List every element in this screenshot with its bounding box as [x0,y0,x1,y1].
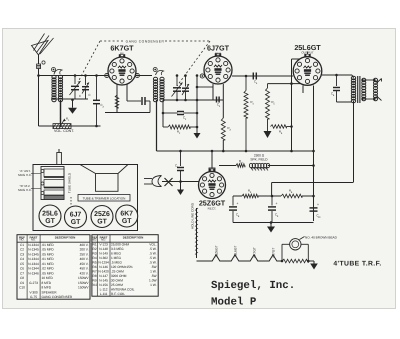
svg-text:R.F. COIL: R.F. COIL [111,292,125,296]
svg-text:V-123: V-123 [99,243,108,247]
svg-text:.5W: .5W [151,274,157,278]
svg-text:DESCRIPTION: DESCRIPTION [123,236,144,240]
svg-text:GT: GT [97,219,107,226]
svg-text:6J7: 6J7 [70,211,82,218]
svg-text:25Z6: 25Z6 [94,211,110,218]
svg-text:.02 MFD: .02 MFD [42,267,55,271]
svg-text:4ʹTUBE T.R.F.: 4ʹTUBE T.R.F. [333,261,381,268]
svg-text:N-1344: N-1344 [28,262,39,266]
svg-text:L-112: L-112 [100,288,108,292]
svg-text:200 V.: 200 V. [80,248,89,252]
svg-text:8 MFD: 8 MFD [42,286,52,290]
svg-text:N-1344: N-1344 [28,267,39,271]
svg-text:R4: R4 [93,256,97,260]
svg-text:NO.: NO. [31,238,36,242]
svg-text:420 V.: 420 V. [80,271,89,275]
svg-text:450 V.: 450 V. [80,262,89,266]
svg-text:150WV: 150WV [78,286,89,290]
svg-text:150WV: 150WV [78,276,89,280]
svg-text:N-146: N-146 [99,265,108,269]
svg-text:L-111: L-111 [100,292,108,296]
svg-text:VOL. CONT.: VOL. CONT. [54,129,74,133]
svg-text:N-148: N-148 [99,247,108,251]
svg-text:400 V.: 400 V. [80,243,89,247]
svg-text:R2: R2 [93,247,97,251]
svg-text:10 MFD: 10 MFD [42,276,54,280]
svg-text:450 V.: 450 V. [80,267,89,271]
svg-text:C1: C1 [20,243,24,247]
svg-text:.05 MFD: .05 MFD [42,271,55,275]
svg-text:N-1344: N-1344 [28,257,39,261]
svg-text:N-302: N-302 [99,256,108,260]
svg-text:C5: C5 [20,262,24,266]
svg-text:NO.: NO. [101,238,106,242]
svg-text:3.3 MEG: 3.3 MEG [111,247,124,251]
svg-text:6K7: 6K7 [120,210,133,217]
svg-text:250 V.: 250 V. [80,252,89,256]
svg-text:6 MEG: 6 MEG [111,252,121,256]
svg-text:1 MEG: 1 MEG [111,256,121,260]
svg-text:NO.: NO. [92,238,97,242]
svg-text:R7: R7 [93,270,97,274]
svg-text:1 W.: 1 W. [150,283,156,287]
svg-text:.05 MFD: .05 MFD [42,252,55,256]
svg-text:C4: C4 [20,257,24,261]
svg-text:6K7GT: 6K7GT [252,247,256,257]
svg-text:N-1420: N-1420 [98,270,109,274]
svg-text:GT: GT [122,218,132,225]
svg-text:V-300: V-300 [29,290,38,294]
svg-text:N-1344: N-1344 [28,243,39,247]
svg-text:+: + [237,202,239,206]
svg-text:N-149: N-149 [99,252,108,256]
svg-text:C9: C9 [20,281,24,285]
svg-text:8 MFD: 8 MFD [42,281,52,285]
svg-text:N-145: N-145 [99,279,108,283]
svg-text:30 OHM: 30 OHM [111,279,123,283]
svg-text:Model P: Model P [211,297,257,309]
svg-text:SPEAKER: SPEAKER [42,290,58,294]
svg-text:Spiegel, Inc.: Spiegel, Inc. [211,280,295,292]
svg-text:+: + [276,202,278,206]
svg-text:150WV: 150WV [78,281,89,285]
svg-text:.5 W.: .5 W. [149,261,156,265]
svg-text:R6: R6 [93,265,97,269]
svg-text:R9: R9 [93,279,97,283]
svg-text:.05 MFD: .05 MFD [42,248,55,252]
svg-text:HOLD LINE CORD: HOLD LINE CORD [191,202,195,229]
svg-text:C7: C7 [20,271,24,275]
svg-text:C2: C2 [20,248,24,252]
svg-text:G-273: G-273 [29,281,38,285]
svg-text:+: + [317,203,319,207]
svg-text:1.0W: 1.0W [149,279,156,283]
svg-text:.5 W.: .5 W. [149,252,156,256]
svg-text:RF: RF [120,52,124,56]
svg-text:.01 MFD: .01 MFD [42,243,55,247]
svg-text:R8: R8 [93,274,97,278]
svg-text:25L6GT: 25L6GT [233,246,237,258]
svg-text:R5: R5 [93,261,97,265]
svg-text:25,000 OHM: 25,000 OHM [111,243,129,247]
svg-text:N-1345: N-1345 [28,248,39,252]
svg-text:GT: GT [45,218,55,225]
svg-text:.01 MFD: .01 MFD [42,257,55,261]
svg-text:GT: GT [71,219,81,226]
svg-text:N-147: N-147 [99,274,108,278]
svg-text:.5 MEG: .5 MEG [111,261,122,265]
svg-text:R3: R3 [93,252,97,256]
svg-text:DESCRIPTION: DESCRIPTION [55,236,76,240]
svg-text:.5W: .5W [151,265,157,269]
svg-text:120 OHM±15%: 120 OHM±15% [111,265,133,269]
svg-text:25Z6GT: 25Z6GT [214,245,218,257]
svg-text:R10: R10 [92,283,98,287]
svg-text:N-156: N-156 [99,283,108,287]
svg-text:.5 W.: .5 W. [149,256,156,260]
svg-text:NO. 40 BROWN BEAD: NO. 40 BROWN BEAD [305,236,338,240]
svg-text:R1: R1 [93,243,97,247]
svg-text:C6: C6 [20,267,24,271]
svg-text:MDG H.C.: MDG H.C. [18,173,32,177]
svg-text:C3: C3 [20,252,24,256]
svg-text:ANTENNA COIL: ANTENNA COIL [111,288,135,292]
svg-text:SPK. FIELD: SPK. FIELD [250,158,268,162]
svg-text:25L6: 25L6 [42,210,58,217]
svg-text:.01 MFD: .01 MFD [42,262,55,266]
svg-text:.25 OHM: .25 OHM [111,270,124,274]
svg-text:6J7GT: 6J7GT [271,248,275,258]
svg-text:C10: C10 [19,286,25,290]
svg-text:DET: DET [215,52,221,56]
svg-text:NO.: NO. [20,238,25,242]
svg-text:400 V.: 400 V. [80,257,89,261]
svg-text:1 W.: 1 W. [150,270,156,274]
svg-text:RECT.: RECT. [208,207,217,211]
svg-text:VOL.: VOL. [149,243,156,247]
svg-text:25 OHM: 25 OHM [111,283,123,287]
svg-text:MDG H.C.: MDG H.C. [18,188,32,192]
svg-text:TUBE & TRIMMER LOCATION: TUBE & TRIMMER LOCATION [83,196,126,200]
svg-text:N-1294: N-1294 [98,261,109,265]
svg-text:GANG CONDENSER: GANG CONDENSER [42,295,73,299]
svg-text:C8: C8 [20,276,24,280]
svg-text:N-1345: N-1345 [28,252,39,256]
svg-text:TUBE SHIELD: TUBE SHIELD [68,172,72,193]
svg-text:N-1346: N-1346 [28,271,39,275]
svg-text:G-75: G-75 [30,295,37,299]
svg-text:3200 OHM: 3200 OHM [111,274,127,278]
svg-text:.5 W.: .5 W. [149,247,156,251]
